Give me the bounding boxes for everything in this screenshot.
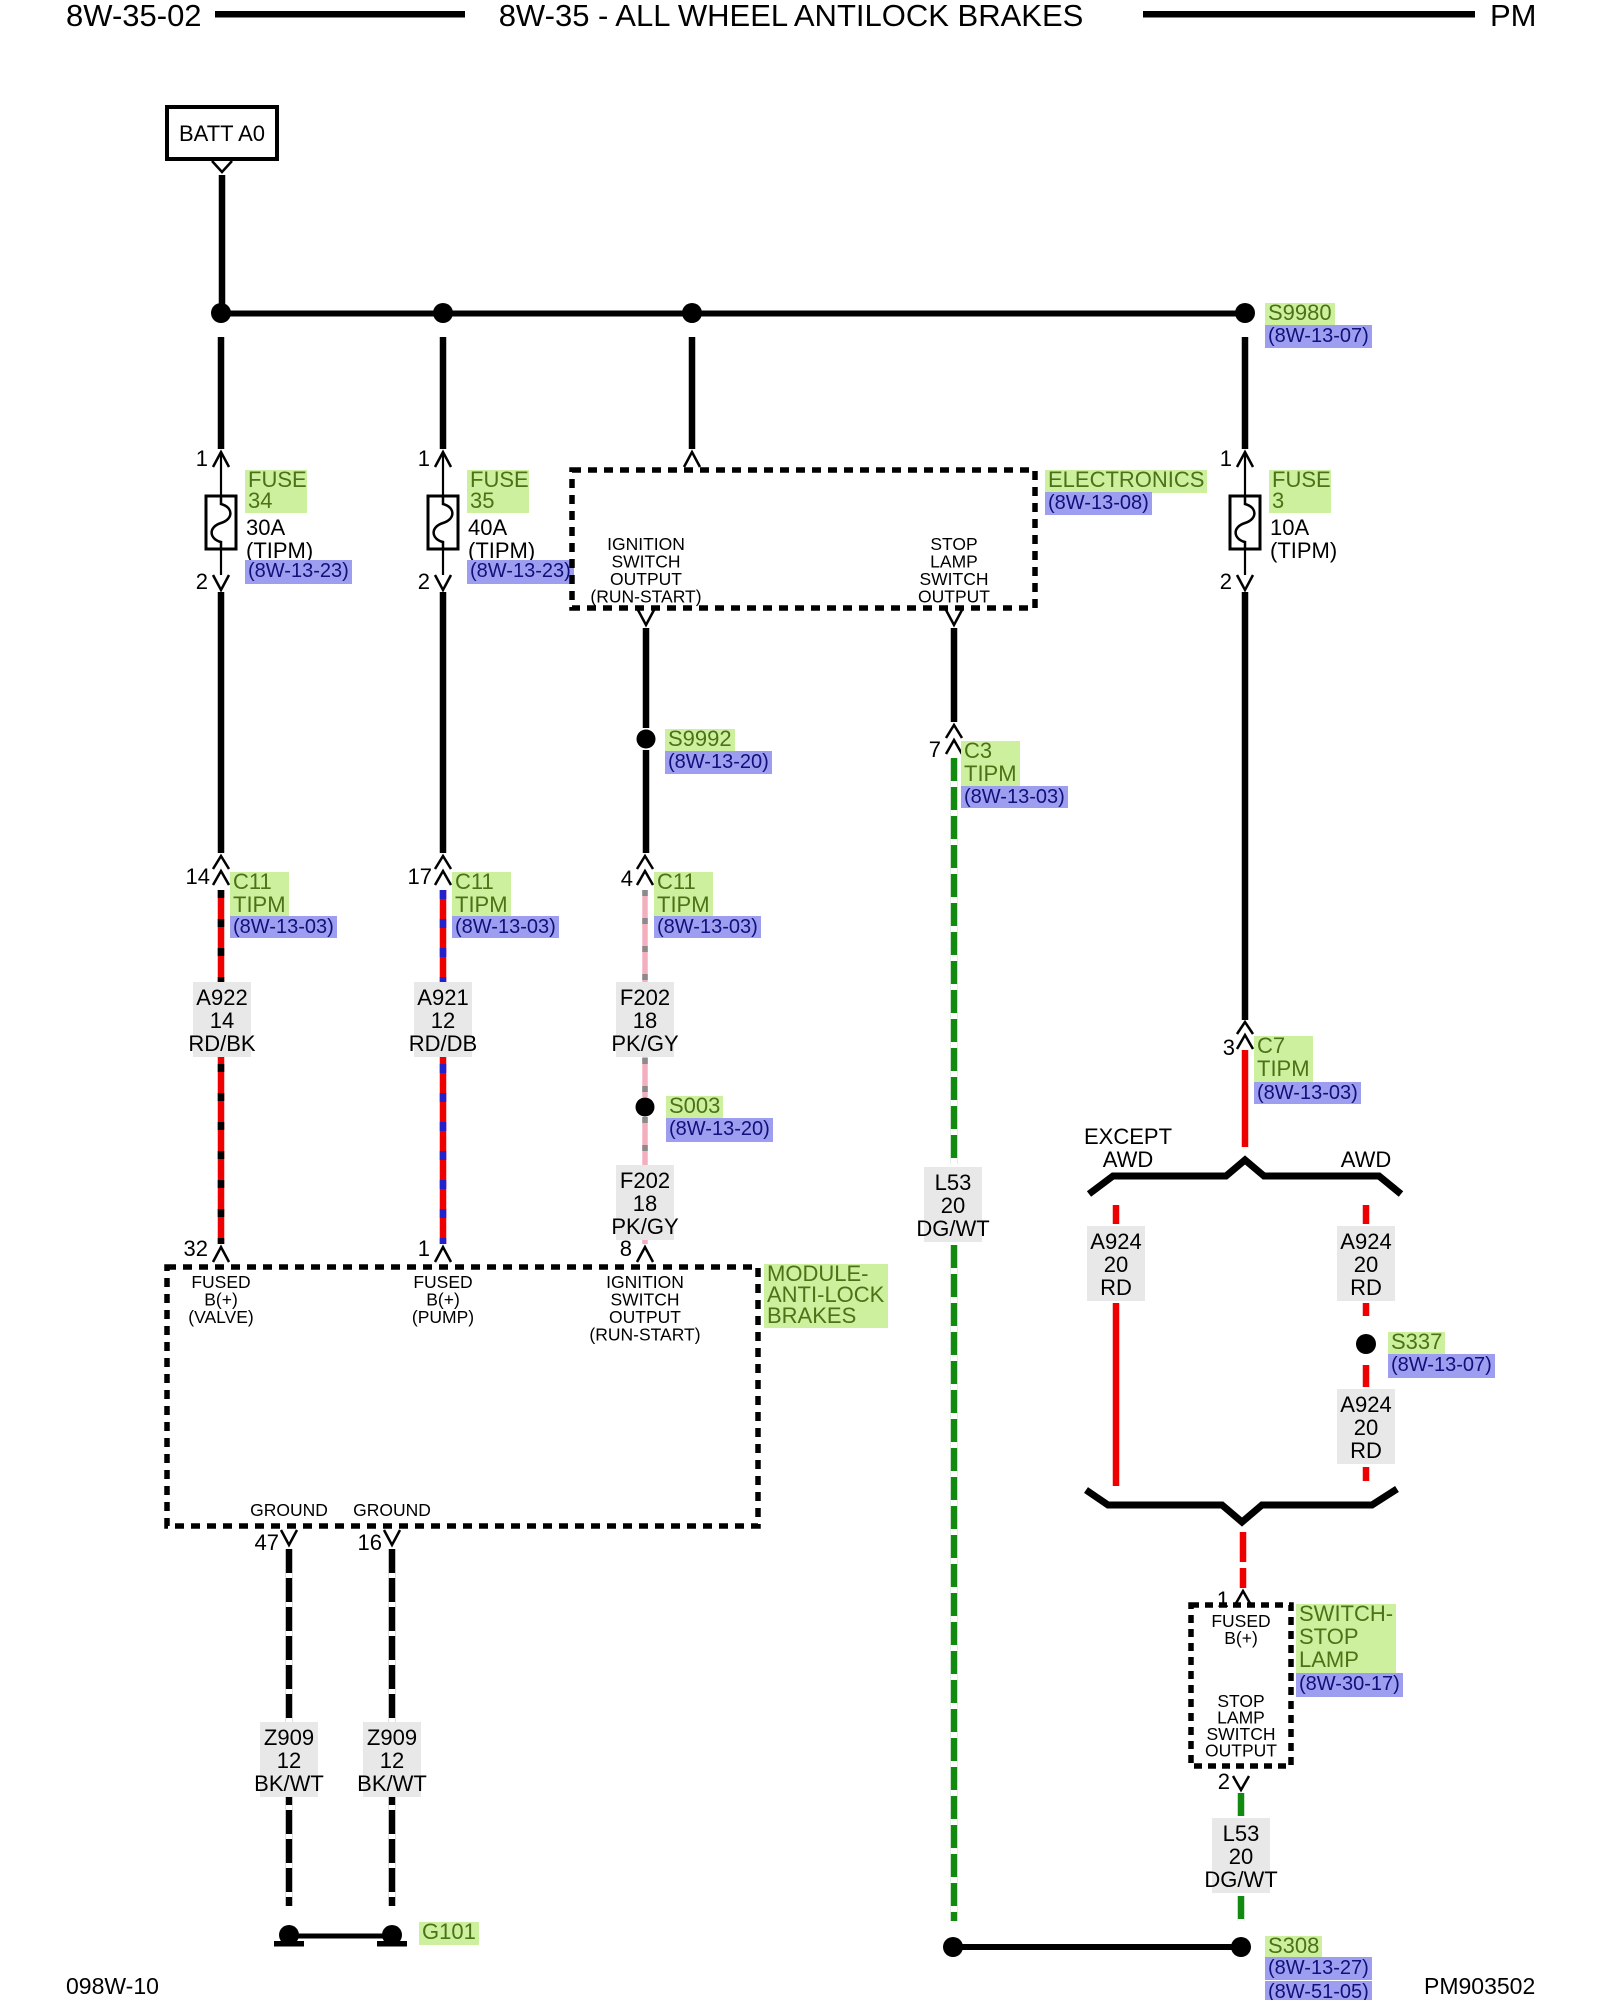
svg-text:8W-35 - ALL WHEEL ANTILOCK BRA: 8W-35 - ALL WHEEL ANTILOCK BRAKES: [499, 0, 1084, 33]
svg-text:4: 4: [621, 866, 633, 891]
header rule right: [1143, 11, 1475, 18]
svg-text:098W-10: 098W-10: [66, 1973, 159, 1999]
svg-text:(PUMP): (PUMP): [412, 1307, 474, 1327]
node at L53 left: [943, 1937, 963, 1957]
svg-text:20: 20: [1354, 1252, 1378, 1277]
wire bus to fuse at x=443: [440, 337, 447, 449]
svg-text:(8W-13-03): (8W-13-03): [233, 916, 334, 938]
svg-text:20: 20: [1229, 1844, 1253, 1869]
svg-text:OUTPUT: OUTPUT: [1205, 1741, 1277, 1761]
label A924 20 RD right upper: [1337, 1226, 1395, 1301]
svg-text:(VALVE): (VALVE): [188, 1307, 253, 1327]
svg-text:Z909: Z909: [264, 1725, 314, 1750]
label A924 20 RD right lower: [1337, 1389, 1395, 1464]
svg-text:A924: A924: [1090, 1229, 1141, 1254]
svg-text:(8W-13-08): (8W-13-08): [1048, 492, 1149, 514]
svg-text:Z909: Z909: [367, 1725, 417, 1750]
svg-text:A922: A922: [196, 985, 247, 1010]
svg-text:S9992: S9992: [668, 726, 732, 751]
box SWITCH-STOP LAMP: [1191, 1605, 1291, 1766]
svg-text:2: 2: [1218, 1769, 1230, 1794]
svg-text:OUTPUT: OUTPUT: [918, 587, 990, 607]
brace merge to stop lamp switch: [1086, 1489, 1397, 1522]
label F202 18 PK/GY second: [616, 1165, 674, 1240]
wire below fuse: [1242, 592, 1249, 1020]
svg-text:BATT A0: BATT A0: [179, 121, 265, 146]
label L53 20 DG/WT: [924, 1167, 982, 1242]
svg-text:G101: G101: [422, 1919, 476, 1944]
label L53 20 DG/WT lower: [1212, 1818, 1270, 1893]
wire L53 DG/WT upper: [951, 758, 958, 1164]
fuse body: [428, 496, 458, 549]
splice S003: [636, 1098, 655, 1117]
label F202 18 PK/GY: [616, 982, 674, 1057]
box MODULE-ANTI-LOCK BRAKES: [167, 1267, 758, 1526]
svg-text:(8W-13-07): (8W-13-07): [1391, 1354, 1492, 1376]
splice S9992: [637, 730, 656, 749]
svg-text:2: 2: [1220, 569, 1232, 594]
label SWITCH-STOP LAMP (8W-30-17): [1296, 1604, 1396, 1674]
fuse body: [206, 496, 236, 549]
svg-text:ELECTRONICS: ELECTRONICS: [1048, 467, 1204, 492]
svg-text:TIPM: TIPM: [1257, 1056, 1310, 1081]
wire A922 RD/BK: [218, 890, 225, 1244]
wire L53 DG/WT lower: [951, 1245, 958, 1921]
battery feed BATT A0: [167, 107, 277, 159]
label (8W-13-23) for fuse 34: [245, 560, 352, 584]
wire power bus: [218, 311, 1248, 317]
header rule left: [215, 11, 465, 18]
wire ignition switch output from electronics box: [638, 610, 654, 625]
svg-text:PM903502: PM903502: [1424, 1973, 1535, 1999]
svg-text:S308: S308: [1268, 1933, 1319, 1958]
wire L53 DG/WT from switch: [1238, 1793, 1245, 1816]
svg-text:17: 17: [408, 864, 432, 889]
module pin 8 arrow: [637, 1247, 653, 1262]
label FUSE 35: [467, 470, 529, 513]
svg-text:(RUN-START): (RUN-START): [590, 587, 701, 607]
wire bus to fuse at x=1245: [1242, 337, 1249, 449]
svg-text:35: 35: [470, 488, 494, 513]
label A924 20 RD left: [1087, 1226, 1145, 1301]
label G101: [419, 1922, 479, 1945]
connector C7 pin 3: [1237, 1022, 1253, 1034]
ground terminal right: [382, 1925, 402, 1945]
connector C3 pin 7: [946, 725, 962, 738]
label Z909 12 BK/WT left: [260, 1722, 318, 1797]
label Z909 12 BK/WT right: [363, 1722, 421, 1797]
wire merged RD to switch: [1240, 1532, 1247, 1562]
svg-text:(8W-13-03): (8W-13-03): [455, 916, 556, 938]
svg-text:3: 3: [1223, 1035, 1235, 1060]
wire S9992 to C11: [643, 750, 650, 853]
svg-text:F202: F202: [620, 1168, 670, 1193]
svg-text:C7: C7: [1257, 1033, 1285, 1058]
svg-text:20: 20: [1354, 1415, 1378, 1440]
node splice S9980: [1235, 303, 1255, 323]
svg-text:47: 47: [255, 1530, 279, 1555]
svg-text:1: 1: [1217, 1587, 1229, 1612]
svg-text:S9980: S9980: [1268, 300, 1332, 325]
svg-text:30A: 30A: [246, 515, 285, 540]
svg-text:18: 18: [633, 1008, 657, 1033]
svg-text:(8W-13-23): (8W-13-23): [248, 560, 349, 582]
svg-text:STOP: STOP: [1299, 1624, 1359, 1649]
svg-text:TIPM: TIPM: [455, 892, 508, 917]
svg-text:(RUN-START): (RUN-START): [589, 1325, 700, 1345]
module pin 32 arrow: [213, 1247, 229, 1262]
svg-text:(8W-30-17): (8W-30-17): [1299, 1673, 1400, 1695]
svg-text:3: 3: [1272, 488, 1284, 513]
svg-text:TIPM: TIPM: [233, 892, 286, 917]
svg-text:DG/WT: DG/WT: [1204, 1867, 1277, 1892]
svg-text:GROUND: GROUND: [353, 1500, 431, 1520]
svg-text:GROUND: GROUND: [250, 1500, 328, 1520]
wire F202 PK/GY upper: [642, 890, 648, 1097]
svg-text:PK/GY: PK/GY: [611, 1031, 679, 1056]
label S337 (8W-13-07): [1388, 1332, 1445, 1355]
svg-text:(8W-51-05): (8W-51-05): [1268, 1981, 1369, 2000]
svg-text:1: 1: [418, 1236, 430, 1261]
wire Z909 BK/WT right: [389, 1549, 396, 1906]
svg-text:12: 12: [380, 1748, 404, 1773]
label ELECTRONICS (8W-13-08): [1045, 470, 1207, 493]
svg-text:RD/DB: RD/DB: [409, 1031, 477, 1056]
svg-text:BRAKES: BRAKES: [767, 1303, 856, 1328]
svg-text:PM: PM: [1490, 0, 1537, 33]
svg-text:RD: RD: [1350, 1438, 1382, 1463]
connector C11 pin 4: [637, 856, 653, 869]
svg-text:AWD: AWD: [1103, 1147, 1154, 1172]
svg-text:14: 14: [186, 864, 210, 889]
svg-text:C3: C3: [964, 738, 992, 763]
svg-text:(8W-13-03): (8W-13-03): [1257, 1082, 1358, 1104]
label S308 (8W-13-27) (8W-51-05): [1265, 1936, 1322, 1958]
label (8W-13-23) for fuse 35: [467, 560, 574, 584]
node junction at fuse 34 feed: [211, 303, 231, 323]
wire A924 RD except-awd branch lower: [1113, 1303, 1120, 1486]
svg-text:1: 1: [418, 446, 430, 471]
node junction at fuse 35 feed: [433, 303, 453, 323]
box ELECTRONICS (TIPM internal): [572, 470, 1035, 608]
svg-text:2: 2: [418, 569, 430, 594]
label MODULE-ANTI-LOCK BRAKES: [764, 1264, 888, 1328]
connector C11 pin 14: [213, 856, 229, 869]
wire below label: [1363, 1467, 1370, 1481]
label FUSE 3: [1269, 470, 1331, 513]
svg-text:(8W-13-20): (8W-13-20): [668, 751, 769, 773]
svg-text:8: 8: [620, 1236, 632, 1261]
label S003 (8W-13-20): [666, 1096, 723, 1119]
fuse body: [1230, 496, 1260, 549]
svg-text:C11: C11: [657, 869, 696, 894]
wire A924 to S337: [1363, 1303, 1370, 1316]
ground terminal left: [279, 1925, 299, 1945]
splice S337: [1356, 1334, 1376, 1354]
svg-text:A924: A924: [1340, 1392, 1391, 1417]
svg-text:A921: A921: [417, 985, 468, 1010]
ground bus: [289, 1934, 392, 1939]
svg-text:AWD: AWD: [1341, 1147, 1392, 1172]
svg-text:2: 2: [196, 569, 208, 594]
label FUSE 34: [245, 470, 307, 513]
svg-text:(8W-13-20): (8W-13-20): [669, 1118, 770, 1140]
svg-text:1: 1: [196, 446, 208, 471]
wire S337 down: [1363, 1365, 1370, 1387]
svg-text:LAMP: LAMP: [1299, 1647, 1359, 1672]
wire bus to electronics box: [689, 337, 696, 449]
label S9980 (8W-13-07): [1265, 303, 1335, 326]
wire A924 RD from C7: [1242, 1050, 1249, 1147]
svg-text:1: 1: [1220, 446, 1232, 471]
wire A924 RD awd branch: [1363, 1205, 1370, 1224]
svg-text:8W-35-02: 8W-35-02: [66, 0, 202, 33]
svg-text:BK/WT: BK/WT: [254, 1771, 324, 1796]
brace split EXCEPT AWD / AWD: [1089, 1160, 1401, 1194]
svg-text:(8W-13-27): (8W-13-27): [1268, 1957, 1369, 1979]
svg-text:(8W-13-03): (8W-13-03): [657, 916, 758, 938]
svg-text:L53: L53: [935, 1170, 972, 1195]
svg-text:12: 12: [431, 1008, 455, 1033]
node junction at electronics feed: [682, 303, 702, 323]
wire splice bus S308: [953, 1944, 1241, 1950]
svg-text:20: 20: [1104, 1252, 1128, 1277]
svg-text:RD: RD: [1350, 1275, 1382, 1300]
connector C11 pin 17: [435, 856, 451, 869]
svg-text:BK/WT: BK/WT: [357, 1771, 427, 1796]
wire L53 to S308: [1238, 1896, 1245, 1921]
svg-text:10A: 10A: [1270, 515, 1309, 540]
svg-text:SWITCH-: SWITCH-: [1299, 1601, 1393, 1626]
svg-text:(8W-13-07): (8W-13-07): [1268, 325, 1369, 347]
svg-text:14: 14: [210, 1008, 234, 1033]
wire bus to fuse at x=221: [218, 337, 225, 449]
svg-text:RD: RD: [1100, 1275, 1132, 1300]
svg-text:40A: 40A: [468, 515, 507, 540]
svg-text:(8W-13-03): (8W-13-03): [964, 786, 1065, 808]
svg-text:18: 18: [633, 1191, 657, 1216]
wire A921 RD/DB: [440, 890, 447, 1244]
svg-text:A924: A924: [1340, 1229, 1391, 1254]
svg-text:C11: C11: [455, 869, 494, 894]
wire F202 PK/GY lower: [642, 1117, 648, 1244]
svg-text:12: 12: [277, 1748, 301, 1773]
svg-text:S003: S003: [669, 1093, 720, 1118]
svg-text:EXCEPT: EXCEPT: [1084, 1124, 1172, 1149]
label A921 12 RD/DB: [414, 982, 472, 1057]
wire battery to bus: [219, 175, 226, 311]
node splice S308: [1231, 1937, 1251, 1957]
svg-text:(TIPM): (TIPM): [1270, 538, 1337, 563]
wire below fuse: [218, 592, 225, 853]
svg-text:34: 34: [248, 488, 272, 513]
svg-text:L53: L53: [1223, 1821, 1260, 1846]
svg-text:32: 32: [184, 1236, 208, 1261]
connector arrow below BATT A0: [212, 161, 232, 172]
label A922 14 RD/BK: [193, 982, 251, 1057]
svg-text:(8W-13-23): (8W-13-23): [470, 560, 571, 582]
wire stop lamp switch output from electronics box: [946, 610, 962, 625]
svg-text:B(+): B(+): [1224, 1628, 1258, 1648]
svg-text:S337: S337: [1391, 1329, 1442, 1354]
svg-text:TIPM: TIPM: [657, 892, 710, 917]
svg-text:TIPM: TIPM: [964, 761, 1017, 786]
svg-text:16: 16: [358, 1530, 382, 1555]
svg-text:RD/BK: RD/BK: [188, 1031, 256, 1056]
svg-text:DG/WT: DG/WT: [916, 1216, 989, 1241]
wire Z909 BK/WT left: [286, 1549, 293, 1906]
wire below fuse: [440, 592, 447, 853]
svg-text:20: 20: [941, 1193, 965, 1218]
svg-text:7: 7: [929, 737, 941, 762]
module pin 1 arrow: [435, 1247, 451, 1262]
svg-text:F202: F202: [620, 985, 670, 1010]
svg-text:C11: C11: [233, 869, 272, 894]
wire A924 RD except-awd branch: [1113, 1205, 1120, 1224]
label S9992 (8W-13-20): [665, 729, 735, 752]
